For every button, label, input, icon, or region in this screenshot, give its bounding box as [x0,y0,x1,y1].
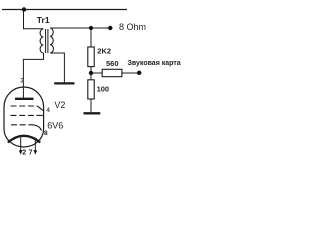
node junction at 2K2 top [89,26,93,30]
ground secondary [54,82,74,84]
wire secondary bottom to ground [50,53,64,82]
node junction on top rail [22,7,26,11]
svg-text:4: 4 [46,107,50,114]
svg-text:3: 3 [20,77,24,84]
wire 2K2 bottom through node to 100 top [90,67,92,80]
wire node to resistor 560 [91,72,102,74]
grid g1 row [11,124,33,126]
node junction divider [89,71,93,75]
wire secondary top to 8 Ohm terminal [50,27,110,29]
transformer Tr1 primary winding [40,29,43,53]
tube V2 envelope [4,87,44,147]
terminal sound card [137,71,141,75]
svg-text:560: 560 [106,59,119,68]
heater pin 2 lead [20,138,22,151]
svg-text:V2: V2 [54,100,65,110]
heater pin 7 lead [34,138,36,151]
resistor R2 560 [102,69,122,76]
svg-text:7: 7 [29,149,33,156]
grid g3 row [11,105,38,107]
svg-text:Звуковая карта: Звуковая карта [128,60,181,67]
cathode [8,136,40,143]
transformer Tr1 secondary winding [50,28,53,53]
wire 560 to sound card terminal [122,72,139,74]
terminal 8 Ohm [108,26,112,30]
transformer Tr1 core [45,29,47,53]
resistor R1 2K2 [88,47,94,67]
wire 100 to ground [90,99,92,113]
svg-text:2K2: 2K2 [97,46,111,55]
wire primary bottom to anode pin 3 [23,53,43,98]
svg-text:8 Ohm: 8 Ohm [119,22,146,32]
svg-text:2: 2 [22,149,26,156]
grid g2 row [11,114,37,116]
wire top rail B+ [2,9,127,11]
resistor R3 100 [88,80,94,99]
wire rail to primary top [24,10,44,29]
svg-text:100: 100 [97,84,110,93]
svg-text:8: 8 [44,130,48,137]
wire junction to resistor 2K2 [90,28,92,47]
svg-text:Tr1: Tr1 [37,15,50,25]
svg-text:6V6: 6V6 [47,121,63,131]
ground under 100 [84,112,101,114]
anode plate [15,98,34,100]
